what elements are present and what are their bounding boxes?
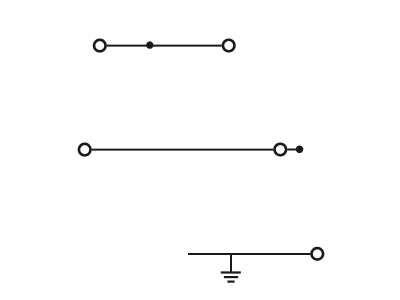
terminal T3 (middle-left open circle) bbox=[79, 144, 91, 156]
wire (top rail) bbox=[107, 45, 222, 47]
wire (ground stem) bbox=[230, 254, 232, 272]
junction dot (middle rail) bbox=[296, 146, 304, 154]
junction dot (top rail) bbox=[146, 41, 153, 48]
ground (earth symbol, three bars) bbox=[221, 273, 241, 282]
terminal T5 (bottom-right open circle) bbox=[312, 248, 324, 259]
terminal T4 (middle-right open circle) bbox=[275, 144, 287, 156]
wire (middle rail) bbox=[92, 149, 273, 151]
wire (stub to junction dot) bbox=[287, 149, 296, 151]
wire (bottom rail) bbox=[188, 253, 310, 255]
terminal T1 (upper-left open circle) bbox=[94, 40, 106, 52]
terminal T2 (upper-right open circle) bbox=[223, 40, 235, 52]
